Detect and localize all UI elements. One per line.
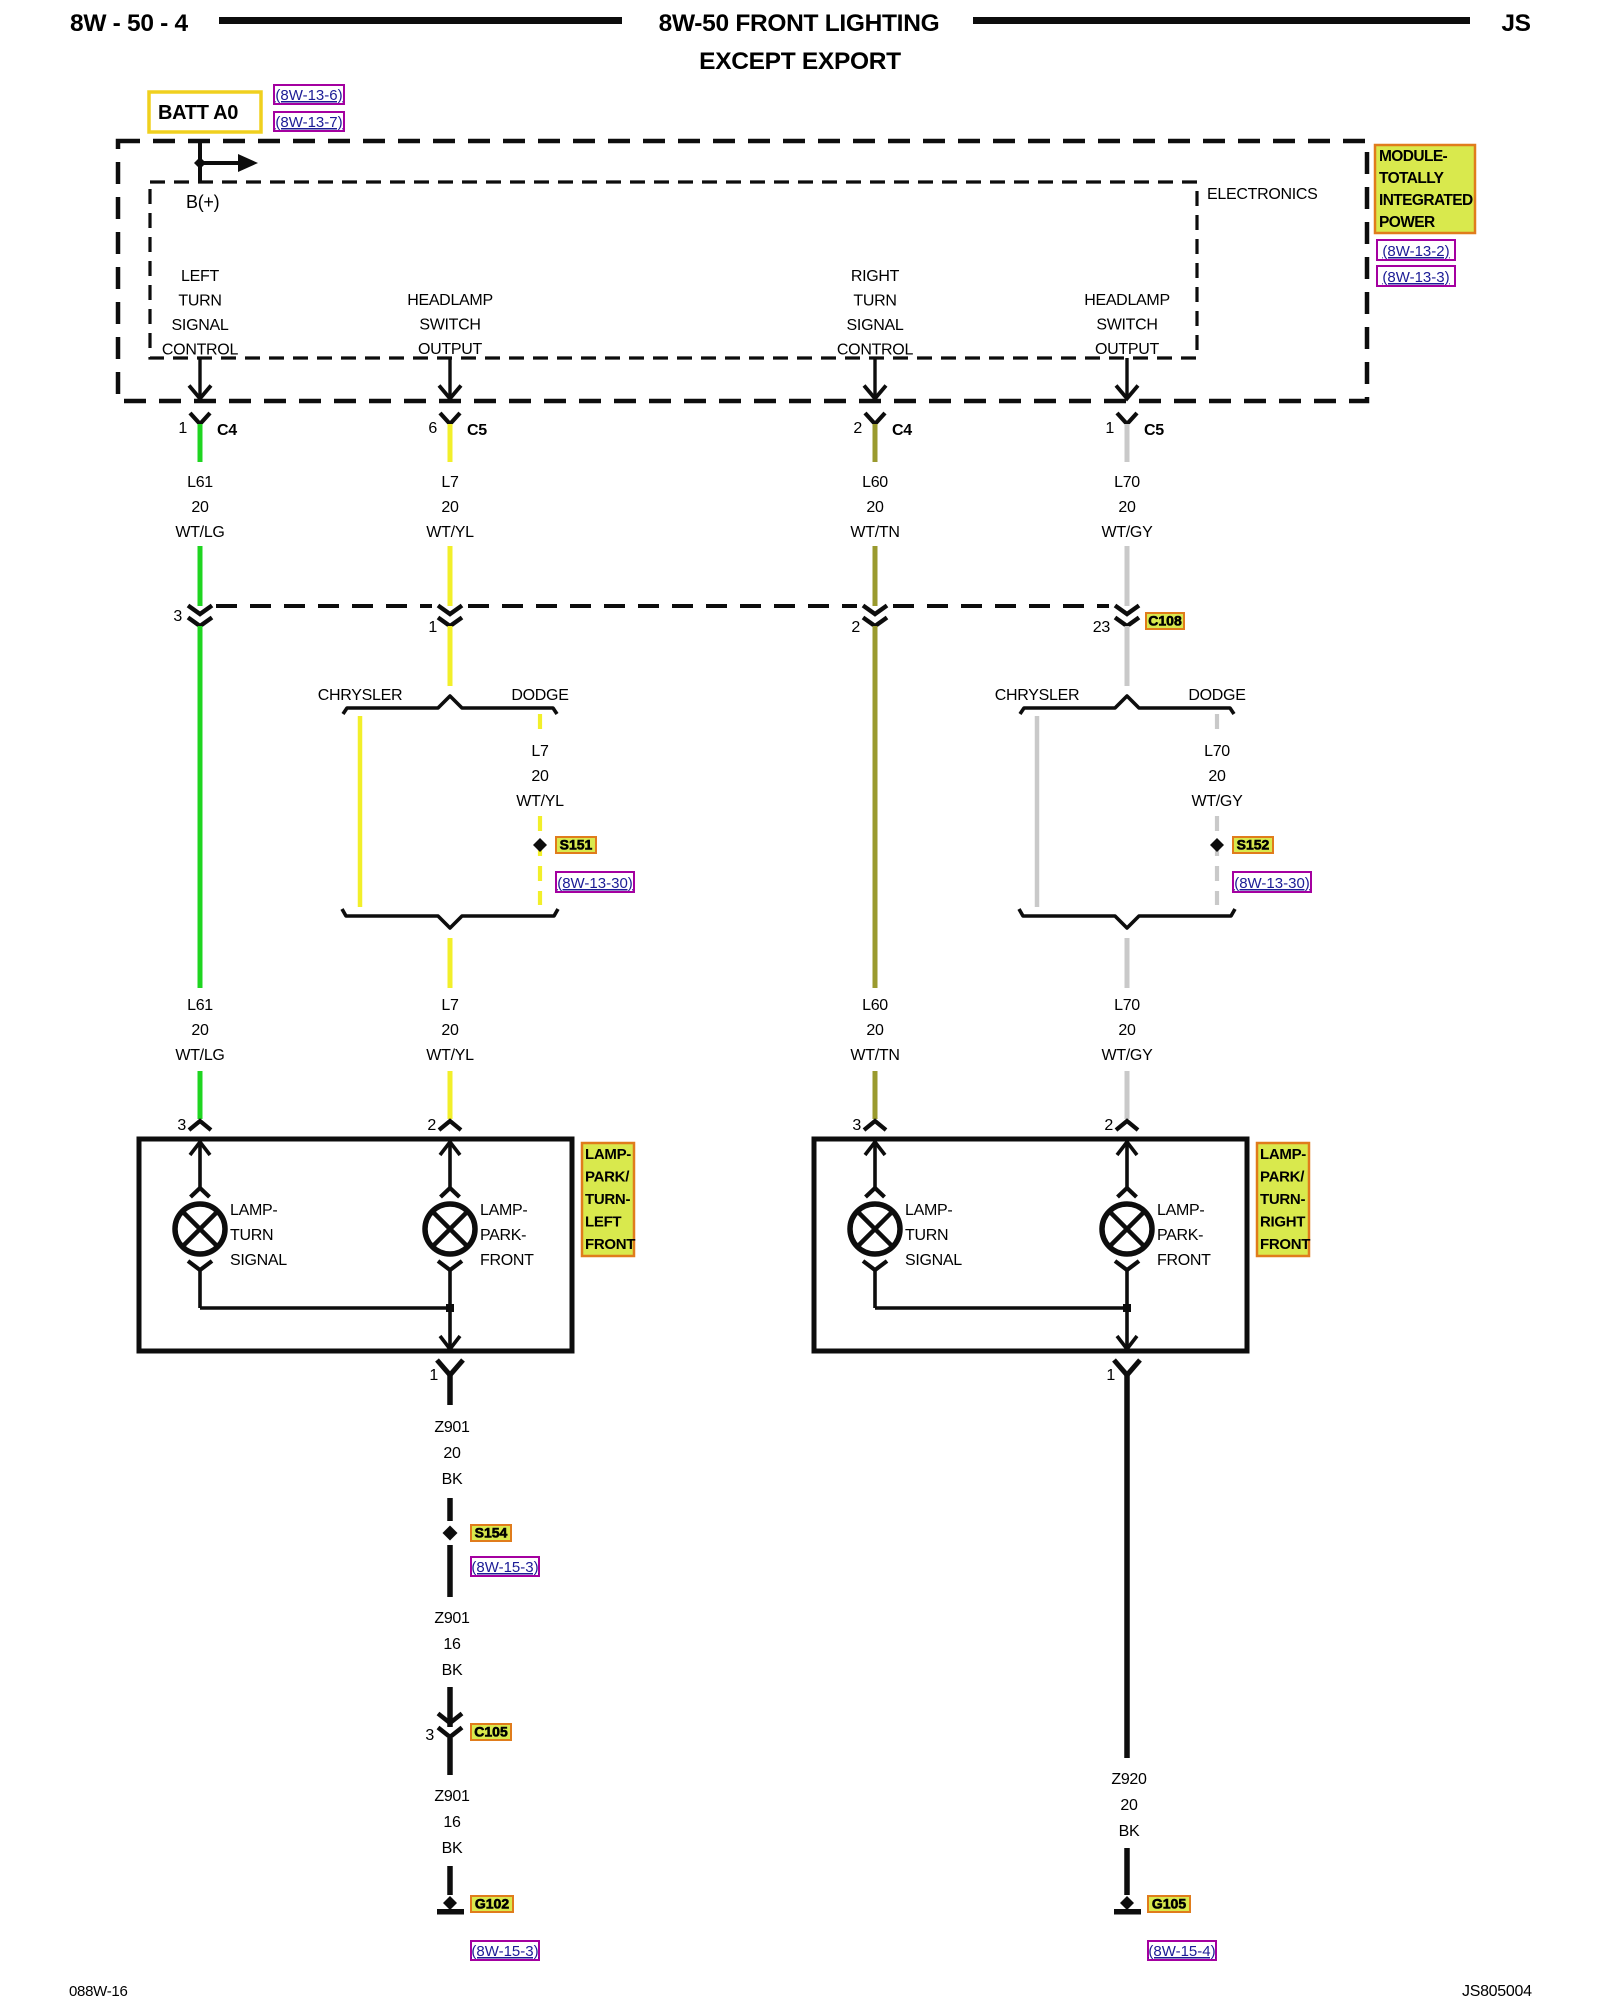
svg-text:TOTALLY: TOTALLY: [1379, 170, 1445, 187]
svg-text:3: 3: [852, 1117, 861, 1134]
svg-text:20: 20: [531, 768, 549, 785]
svg-text:WT/GY: WT/GY: [1192, 793, 1244, 810]
svg-text:Z901: Z901: [434, 1788, 470, 1805]
svg-text:C4: C4: [217, 422, 237, 439]
svg-text:1: 1: [428, 619, 437, 636]
svg-text:POWER: POWER: [1379, 214, 1435, 231]
svg-text:JS: JS: [1501, 10, 1530, 37]
svg-text:WT/TN: WT/TN: [850, 524, 899, 541]
svg-text:20: 20: [191, 1022, 209, 1039]
svg-text:RIGHT: RIGHT: [1260, 1214, 1305, 1231]
svg-text:WT/TN: WT/TN: [850, 1047, 899, 1064]
svg-text:Z920: Z920: [1111, 1771, 1147, 1788]
svg-text:C5: C5: [1144, 422, 1164, 439]
svg-text:WT/GY: WT/GY: [1102, 1047, 1154, 1064]
svg-text:TURN-: TURN-: [1260, 1191, 1305, 1208]
svg-text:L70: L70: [1114, 474, 1140, 491]
svg-text:2: 2: [427, 1117, 436, 1134]
svg-text:BATT A0: BATT A0: [158, 102, 238, 124]
svg-text:LAMP-: LAMP-: [585, 1146, 631, 1163]
svg-text:8W - 50 - 4: 8W - 50 - 4: [70, 10, 189, 37]
svg-text:20: 20: [441, 1022, 459, 1039]
svg-text:(8W-13-6): (8W-13-6): [275, 87, 342, 104]
svg-text:PARK-: PARK-: [1157, 1227, 1203, 1244]
svg-text:Z901: Z901: [434, 1610, 470, 1627]
svg-text:LAMP-: LAMP-: [1157, 1202, 1204, 1219]
svg-text:G102: G102: [475, 1896, 509, 1912]
svg-text:BK: BK: [1119, 1823, 1140, 1840]
svg-text:FRONT: FRONT: [1260, 1236, 1310, 1253]
svg-text:CONTROL: CONTROL: [162, 342, 239, 359]
svg-text:PARK-: PARK-: [480, 1227, 526, 1244]
svg-text:WT/YL: WT/YL: [426, 524, 474, 541]
svg-text:TURN: TURN: [905, 1227, 948, 1244]
svg-text:20: 20: [443, 1445, 461, 1462]
svg-text:TURN: TURN: [178, 293, 221, 310]
svg-text:JS805004: JS805004: [1462, 1983, 1532, 2000]
svg-text:(8W-15-3): (8W-15-3): [471, 1559, 538, 1576]
svg-text:20: 20: [866, 499, 884, 516]
svg-text:2: 2: [851, 619, 860, 636]
svg-text:FRONT: FRONT: [480, 1252, 534, 1269]
svg-text:S152: S152: [1237, 837, 1270, 853]
svg-text:SIGNAL: SIGNAL: [905, 1252, 962, 1269]
svg-text:MODULE-: MODULE-: [1379, 148, 1448, 165]
svg-text:OUTPUT: OUTPUT: [1095, 341, 1160, 358]
svg-text:HEADLAMP: HEADLAMP: [1084, 292, 1170, 309]
svg-text:TURN-: TURN-: [585, 1191, 630, 1208]
svg-text:(8W-15-3): (8W-15-3): [471, 1943, 538, 1960]
svg-text:L70: L70: [1114, 997, 1140, 1014]
svg-text:(8W-13-7): (8W-13-7): [275, 114, 342, 131]
svg-text:L60: L60: [862, 474, 888, 491]
svg-text:3: 3: [425, 1727, 434, 1744]
svg-text:FRONT: FRONT: [1157, 1252, 1211, 1269]
svg-text:EXCEPT EXPORT: EXCEPT EXPORT: [699, 48, 901, 75]
svg-text:WT/LG: WT/LG: [175, 524, 224, 541]
svg-text:LEFT: LEFT: [585, 1214, 621, 1231]
svg-text:LAMP-: LAMP-: [1260, 1146, 1306, 1163]
svg-text:Z901: Z901: [434, 1419, 470, 1436]
svg-text:WT/GY: WT/GY: [1102, 524, 1154, 541]
svg-text:(8W-13-2): (8W-13-2): [1382, 243, 1449, 260]
svg-text:WT/YL: WT/YL: [516, 793, 564, 810]
svg-text:L7: L7: [441, 997, 459, 1014]
svg-text:BK: BK: [442, 1840, 463, 1857]
svg-text:20: 20: [1120, 1797, 1138, 1814]
svg-text:C105: C105: [474, 1724, 508, 1740]
svg-text:6: 6: [428, 420, 437, 437]
svg-text:SWITCH: SWITCH: [1096, 317, 1157, 334]
svg-text:LAMP-: LAMP-: [480, 1202, 527, 1219]
svg-text:L70: L70: [1204, 743, 1230, 760]
svg-text:WT/LG: WT/LG: [175, 1047, 224, 1064]
svg-text:S154: S154: [475, 1525, 508, 1541]
svg-text:23: 23: [1093, 619, 1111, 636]
svg-text:(8W-13-3): (8W-13-3): [1382, 269, 1449, 286]
svg-text:FRONT: FRONT: [585, 1236, 635, 1253]
svg-text:L7: L7: [441, 474, 459, 491]
svg-text:088W-16: 088W-16: [69, 1983, 128, 2000]
svg-text:C4: C4: [892, 422, 912, 439]
svg-text:CHRYSLER: CHRYSLER: [318, 687, 402, 704]
svg-text:L7: L7: [531, 743, 549, 760]
svg-text:20: 20: [866, 1022, 884, 1039]
svg-text:C108: C108: [1148, 613, 1182, 629]
svg-text:BK: BK: [442, 1662, 463, 1679]
svg-text:L61: L61: [187, 474, 213, 491]
svg-text:TURN: TURN: [230, 1227, 273, 1244]
svg-text:PARK/: PARK/: [1260, 1169, 1305, 1186]
svg-text:TURN: TURN: [853, 293, 896, 310]
svg-text:ELECTRONICS: ELECTRONICS: [1207, 186, 1318, 203]
svg-text:INTEGRATED: INTEGRATED: [1379, 192, 1473, 209]
svg-text:WT/YL: WT/YL: [426, 1047, 474, 1064]
svg-text:20: 20: [1208, 768, 1226, 785]
svg-text:LAMP-: LAMP-: [905, 1202, 952, 1219]
svg-text:RIGHT: RIGHT: [851, 268, 900, 285]
svg-text:1: 1: [1106, 1367, 1115, 1384]
svg-text:LEFT: LEFT: [181, 268, 219, 285]
svg-text:16: 16: [443, 1814, 461, 1831]
svg-text:B(+): B(+): [186, 192, 219, 212]
svg-text:1: 1: [1105, 420, 1114, 437]
svg-text:CONTROL: CONTROL: [837, 342, 914, 359]
svg-text:S151: S151: [560, 837, 593, 853]
svg-text:PARK/: PARK/: [585, 1169, 630, 1186]
svg-text:16: 16: [443, 1636, 461, 1653]
svg-text:LAMP-: LAMP-: [230, 1202, 277, 1219]
svg-text:SWITCH: SWITCH: [419, 317, 480, 334]
svg-text:OUTPUT: OUTPUT: [418, 341, 483, 358]
svg-text:SIGNAL: SIGNAL: [172, 317, 229, 334]
svg-text:C5: C5: [467, 422, 487, 439]
svg-text:20: 20: [1118, 1022, 1136, 1039]
svg-text:L60: L60: [862, 997, 888, 1014]
svg-text:20: 20: [191, 499, 209, 516]
svg-text:20: 20: [1118, 499, 1136, 516]
svg-text:3: 3: [173, 608, 182, 625]
svg-text:L61: L61: [187, 997, 213, 1014]
svg-text:2: 2: [853, 420, 862, 437]
svg-text:1: 1: [178, 420, 187, 437]
svg-text:(8W-13-30): (8W-13-30): [1234, 875, 1310, 892]
svg-text:CHRYSLER: CHRYSLER: [995, 687, 1079, 704]
svg-text:SIGNAL: SIGNAL: [847, 317, 904, 334]
svg-text:DODGE: DODGE: [1188, 687, 1245, 704]
svg-text:3: 3: [177, 1117, 186, 1134]
svg-text:BK: BK: [442, 1471, 463, 1488]
svg-text:20: 20: [441, 499, 459, 516]
svg-text:SIGNAL: SIGNAL: [230, 1252, 287, 1269]
svg-text:HEADLAMP: HEADLAMP: [407, 292, 493, 309]
svg-text:1: 1: [429, 1367, 438, 1384]
svg-text:(8W-15-4): (8W-15-4): [1148, 1943, 1215, 1960]
svg-text:2: 2: [1104, 1117, 1113, 1134]
svg-text:8W-50 FRONT LIGHTING: 8W-50 FRONT LIGHTING: [659, 10, 940, 37]
svg-text:G105: G105: [1152, 1896, 1186, 1912]
svg-text:(8W-13-30): (8W-13-30): [557, 875, 633, 892]
svg-text:DODGE: DODGE: [511, 687, 568, 704]
